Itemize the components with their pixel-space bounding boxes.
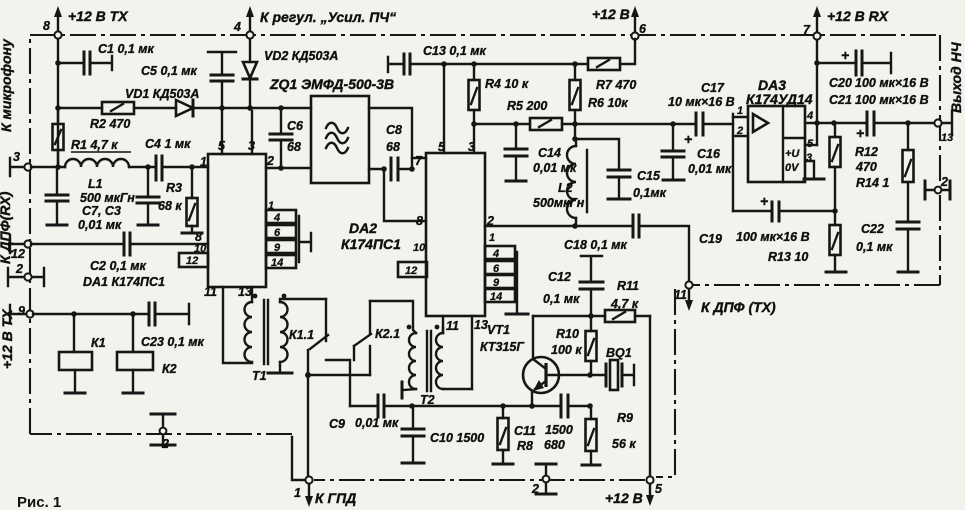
resistor R2 xyxy=(55,102,176,131)
node pin 3 microphone input xyxy=(10,150,32,176)
svg-text:С21: С21 xyxy=(829,93,852,107)
capacitor C6 xyxy=(270,105,304,171)
svg-text:КТ315Г: КТ315Г xyxy=(480,340,525,354)
capacitor C11 xyxy=(514,395,591,438)
svg-text:С16: С16 xyxy=(697,147,721,161)
capacitor C13 xyxy=(388,44,588,74)
wire DA1 pin2 to ZQ1 xyxy=(266,167,311,169)
node K GPD xyxy=(294,476,356,507)
diode VD2 xyxy=(243,39,338,111)
svg-text:7: 7 xyxy=(415,154,423,168)
op-amp DA3 xyxy=(733,77,814,211)
svg-text:С8: С8 xyxy=(386,123,402,137)
relay K1 xyxy=(59,314,106,393)
svg-text:13: 13 xyxy=(238,285,252,299)
svg-text:С20: С20 xyxy=(829,76,852,90)
capacitor C9 xyxy=(329,395,560,431)
svg-text:R2 470: R2 470 xyxy=(90,117,130,131)
svg-text:4: 4 xyxy=(492,248,499,260)
svg-text:3: 3 xyxy=(13,150,20,164)
frame border segment x=675 xyxy=(656,289,675,477)
node pin 12 left xyxy=(10,235,32,261)
svg-text:0,1мк: 0,1мк xyxy=(633,186,667,200)
wire DA2 pin11 to T2 xyxy=(442,316,444,333)
DA2 right pin boxes 4 6 9 14 xyxy=(485,246,528,314)
svg-text:С9: С9 xyxy=(329,417,345,431)
svg-text:500 мкГн: 500 мкГн xyxy=(80,191,135,205)
wire DA1 pin3 from VD2 node xyxy=(251,111,253,154)
svg-text:+U: +U xyxy=(785,148,800,160)
diode VD1 xyxy=(125,87,311,116)
svg-text:К174ПС1: К174ПС1 xyxy=(341,236,401,252)
svg-text:0,01 мк: 0,01 мк xyxy=(355,416,399,430)
IC DA2 xyxy=(341,140,495,333)
svg-text:13: 13 xyxy=(474,318,488,332)
svg-text:VD1 КД503А: VD1 КД503А xyxy=(125,87,199,101)
svg-text:BQ1: BQ1 xyxy=(606,346,632,360)
svg-text:Рис. 1: Рис. 1 xyxy=(17,494,61,510)
svg-text:К ДПФ(RX): К ДПФ(RX) xyxy=(0,191,13,264)
svg-text:С22: С22 xyxy=(861,222,884,236)
resistor R12 xyxy=(830,123,878,214)
DA1 right pin boxes 4 6 9 14 xyxy=(266,200,311,269)
capacitor C10 xyxy=(402,403,484,463)
wire DA3 output line xyxy=(805,120,934,126)
capacitor C20 xyxy=(817,47,929,90)
capacitor C15 xyxy=(575,139,667,200)
svg-text:С23 0,1 мк: С23 0,1 мк xyxy=(141,335,205,349)
relay contact K2.1 xyxy=(354,301,400,375)
frame bottom rail right xyxy=(314,479,645,481)
svg-text:С14: С14 xyxy=(538,146,561,160)
svg-text:500мкГн: 500мкГн xyxy=(533,196,585,210)
svg-text:56 к: 56 к xyxy=(612,437,636,451)
svg-text:С17: С17 xyxy=(701,81,725,95)
svg-text:2: 2 xyxy=(266,154,274,168)
resistor R9 xyxy=(582,403,636,465)
svg-text:11: 11 xyxy=(446,319,459,333)
resistor R6 xyxy=(570,61,629,139)
resistor R7 xyxy=(588,39,636,92)
svg-text:С4 1 мк: С4 1 мк xyxy=(145,137,191,151)
resistor R1 xyxy=(53,108,132,167)
svg-text:С13 0,1 мк: С13 0,1 мк xyxy=(423,44,487,58)
resistor R3 xyxy=(158,167,202,233)
svg-text:+12 В: +12 В xyxy=(592,6,630,22)
svg-text:ZQ1 ЭМФД-500-3В: ZQ1 ЭМФД-500-3В xyxy=(269,76,394,92)
svg-text:R4 10 к: R4 10 к xyxy=(485,77,529,91)
node terminal 2 left xyxy=(8,262,44,286)
frame top dash-dot rail xyxy=(30,34,940,36)
svg-text:0,1 мк: 0,1 мк xyxy=(856,240,893,254)
relay K2 xyxy=(117,314,177,393)
wire input line y167 with L1 xyxy=(31,166,65,168)
svg-text:68: 68 xyxy=(287,140,301,154)
svg-text:6: 6 xyxy=(493,263,500,275)
svg-text:1: 1 xyxy=(294,486,301,500)
svg-text:1: 1 xyxy=(737,105,743,117)
svg-text:4: 4 xyxy=(806,110,813,122)
resistor R4 xyxy=(469,61,529,153)
DA3 pin3 ground xyxy=(804,161,824,179)
svg-text:R13 10: R13 10 xyxy=(768,250,808,264)
svg-text:9: 9 xyxy=(274,242,281,254)
svg-text:5: 5 xyxy=(655,482,663,496)
wire main +12TX vertical xyxy=(57,39,59,167)
svg-text:DA2: DA2 xyxy=(349,220,377,236)
svg-text:R8: R8 xyxy=(517,439,533,453)
svg-text:4,7 к: 4,7 к xyxy=(610,297,639,311)
svg-text:К1: К1 xyxy=(91,336,106,350)
node pin 9 left xyxy=(10,304,34,323)
filter ZQ1 xyxy=(269,76,394,183)
svg-text:100 мк×16 В: 100 мк×16 В xyxy=(855,93,929,107)
frame right border xyxy=(939,35,941,285)
svg-text:14: 14 xyxy=(271,257,283,269)
svg-text:4: 4 xyxy=(233,20,241,34)
node pin 4 K regul xyxy=(233,6,396,39)
svg-text:R5 200: R5 200 xyxy=(507,99,547,113)
resistor R10 xyxy=(551,316,597,375)
svg-text:С10 1500: С10 1500 xyxy=(430,431,484,445)
svg-text:К2.1: К2.1 xyxy=(375,327,400,341)
svg-text:2: 2 xyxy=(736,125,743,137)
wire DA2 pin2 line with capacitor C18 xyxy=(485,215,689,281)
svg-text:+: + xyxy=(856,125,864,141)
svg-text:К2: К2 xyxy=(162,362,177,376)
transformer T1 xyxy=(223,287,326,383)
svg-text:+: + xyxy=(760,193,768,209)
svg-text:68 к: 68 к xyxy=(158,199,182,213)
node pin 8 +12V TX xyxy=(43,6,129,39)
svg-text:+12 В RX: +12 В RX xyxy=(827,8,890,24)
svg-text:7: 7 xyxy=(803,23,811,37)
svg-text:К1.1: К1.1 xyxy=(289,328,314,342)
capacitor C8 xyxy=(369,108,426,228)
svg-text:VD2 КД503А: VD2 КД503А xyxy=(264,49,338,63)
svg-text:К регул. „Усил. ПЧ“: К регул. „Усил. ПЧ“ xyxy=(260,9,396,25)
svg-text:С5 0,1 мк: С5 0,1 мк xyxy=(141,64,198,78)
DA2 pin box 12 xyxy=(398,262,427,277)
svg-text:К174УД14: К174УД14 xyxy=(746,91,813,107)
inductor L1 xyxy=(65,159,155,205)
wire pin9 line y314 xyxy=(33,311,148,317)
svg-text:0,01 мк: 0,01 мк xyxy=(78,218,122,232)
transformer T2 xyxy=(370,301,472,407)
svg-text:С12: С12 xyxy=(548,270,571,284)
capacitor C4 xyxy=(145,137,208,180)
svg-text:R10: R10 xyxy=(556,327,579,341)
svg-text:2: 2 xyxy=(531,482,539,496)
svg-text:0,1 мк: 0,1 мк xyxy=(543,292,580,306)
capacitor C19 feedback xyxy=(699,193,835,246)
svg-text:12: 12 xyxy=(11,247,25,261)
capacitor C3 xyxy=(137,167,159,225)
svg-text:2: 2 xyxy=(15,262,23,276)
capacitor C21 xyxy=(829,93,929,141)
wire DA2 pin5 riser xyxy=(441,61,447,153)
node pin 6 +12V xyxy=(592,6,647,40)
svg-text:100 мк×16 В: 100 мк×16 В xyxy=(855,76,929,90)
svg-text:+: + xyxy=(684,131,692,147)
svg-text:9: 9 xyxy=(493,277,500,289)
svg-text:R1 4,7 к: R1 4,7 к xyxy=(71,138,118,152)
wire +12RX riser xyxy=(805,40,820,145)
inductor L2 xyxy=(533,136,587,226)
DA1 pin box 12 xyxy=(179,253,208,267)
svg-text:680: 680 xyxy=(544,438,565,452)
capacitor C7 xyxy=(46,164,122,232)
svg-text:12: 12 xyxy=(186,255,198,267)
svg-text:14: 14 xyxy=(490,291,502,303)
svg-text:+: + xyxy=(841,47,849,63)
svg-text:С7, С3: С7, С3 xyxy=(82,204,121,218)
svg-text:8: 8 xyxy=(43,19,50,33)
resistor R11 xyxy=(605,279,650,322)
svg-text:9: 9 xyxy=(18,304,25,318)
svg-text:С11: С11 xyxy=(514,424,536,438)
svg-text:Выход НЧ: Выход НЧ xyxy=(948,41,964,113)
wire elbow bottom rail xyxy=(292,437,304,480)
svg-text:6: 6 xyxy=(274,227,281,239)
resistor R5 xyxy=(474,99,694,130)
svg-text:11: 11 xyxy=(204,285,217,299)
capacitor C1 xyxy=(55,42,154,74)
svg-text:С6: С6 xyxy=(287,119,304,133)
svg-text:R6 10к: R6 10к xyxy=(588,96,628,110)
resistor R8 xyxy=(493,403,565,464)
svg-text:2: 2 xyxy=(940,175,948,189)
svg-text:10: 10 xyxy=(413,242,426,254)
capacitor C17 xyxy=(668,81,735,147)
wire collector rail y316 xyxy=(533,313,605,319)
svg-text:R3: R3 xyxy=(166,181,182,195)
capacitor C16 xyxy=(662,121,732,180)
svg-text:R9: R9 xyxy=(617,411,633,425)
capacitor C14 xyxy=(505,121,577,181)
IC DA1 xyxy=(83,139,274,299)
svg-text:1500: 1500 xyxy=(545,423,573,437)
node pin 5 +12V bottom xyxy=(605,476,663,506)
svg-text:L2: L2 xyxy=(558,181,573,195)
frame rail to К ДПФ node xyxy=(693,284,940,286)
svg-text:R12: R12 xyxy=(855,145,878,159)
svg-text:R11: R11 xyxy=(617,279,639,293)
svg-text:68: 68 xyxy=(386,140,400,154)
svg-text:С18 0,1 мк: С18 0,1 мк xyxy=(564,238,628,252)
svg-text:+12 В ТХ: +12 В ТХ xyxy=(0,308,15,369)
relay contact K1.1 xyxy=(289,299,370,476)
svg-text:Т1: Т1 xyxy=(252,369,267,383)
capacitor C12 xyxy=(543,256,603,316)
svg-text:0,01 мк: 0,01 мк xyxy=(688,162,732,176)
svg-text:DA1 К174ПС1: DA1 К174ПС1 xyxy=(83,275,165,289)
svg-text:100 к: 100 к xyxy=(551,343,582,357)
resistor R13 xyxy=(768,211,846,272)
svg-text:+12 В: +12 В xyxy=(605,490,643,506)
wire pin12 line y244 with capacitor C2 xyxy=(31,233,208,255)
transistor VT1 xyxy=(480,316,559,406)
svg-text:13: 13 xyxy=(941,132,953,144)
svg-text:100 мк×16 В: 100 мк×16 В xyxy=(736,230,810,244)
svg-text:4: 4 xyxy=(273,212,280,224)
node pin 7 +12V RX xyxy=(803,6,890,40)
svg-text:12: 12 xyxy=(405,265,417,277)
svg-text:+12 В ТХ: +12 В ТХ xyxy=(68,8,129,24)
node terminal 2 left rail xyxy=(151,414,175,451)
svg-text:10 мк×16 В: 10 мк×16 В xyxy=(668,95,735,109)
svg-text:R14 1: R14 1 xyxy=(856,176,889,190)
svg-text:5: 5 xyxy=(218,139,226,153)
svg-text:R7 470: R7 470 xyxy=(596,78,636,92)
frame bottom rail left xyxy=(30,433,292,435)
node terminal 2 right xyxy=(925,175,950,199)
svg-text:2: 2 xyxy=(161,437,169,451)
svg-text:11: 11 xyxy=(674,288,687,302)
svg-text:С15: С15 xyxy=(637,169,661,183)
svg-text:VT1: VT1 xyxy=(487,323,510,337)
svg-text:С19: С19 xyxy=(699,232,722,246)
node pin 11 K DPF TX xyxy=(674,281,776,315)
svg-text:К ДПФ (ТХ): К ДПФ (ТХ) xyxy=(701,299,776,315)
node output 13 xyxy=(934,111,953,144)
capacitor C22 xyxy=(856,222,919,272)
resistor R14 xyxy=(856,123,914,222)
svg-text:1: 1 xyxy=(489,232,495,244)
capacitor C5 and DA1 pin5 wire xyxy=(141,52,236,154)
wire R11 riser to pin5 xyxy=(649,316,651,476)
node terminal 2 mid bottom xyxy=(531,464,556,496)
svg-text:8: 8 xyxy=(416,214,423,228)
svg-text:470: 470 xyxy=(855,160,877,174)
svg-text:С2 0,1 мк: С2 0,1 мк xyxy=(90,259,147,273)
svg-text:0V: 0V xyxy=(785,162,800,174)
svg-text:К ГПД: К ГПД xyxy=(315,490,356,506)
svg-text:К микрофону: К микрофону xyxy=(0,38,14,132)
svg-text:L1: L1 xyxy=(88,177,103,191)
capacitor C23 xyxy=(141,303,205,349)
svg-text:С1 0,1 мк: С1 0,1 мк xyxy=(98,42,155,56)
svg-text:6: 6 xyxy=(639,22,647,36)
crystal BQ1 xyxy=(547,346,634,390)
frame left border xyxy=(29,35,31,434)
